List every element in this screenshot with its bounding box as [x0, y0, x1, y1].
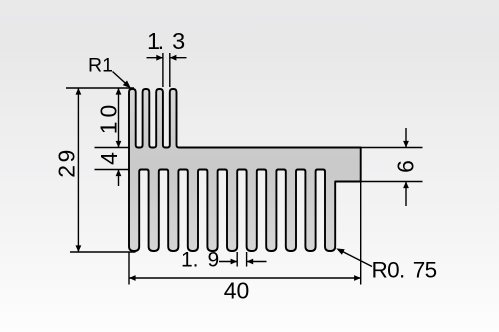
heat sink profile outline [129, 89, 361, 251]
dimension 29 extension lines [66, 88, 136, 252]
dimension 4 extension lines [95, 148, 130, 170]
dimension 6 outside arrows [405, 128, 407, 206]
leader R0.75 line [342, 251, 373, 267]
dimension 1.9 extension lines [237, 252, 246, 267]
svg-text:4: 4 [96, 152, 122, 165]
dimension 40 line [129, 277, 361, 279]
svg-text:10: 10 [96, 101, 122, 135]
dimension 40 extension lines [129, 182, 361, 285]
dimension 1.3 arrows [147, 57, 187, 59]
svg-text:29: 29 [54, 147, 80, 178]
dimension 6 extension lines [360, 148, 423, 182]
dimension 1.9 arrows [219, 261, 267, 263]
dimension 10 line [118, 88, 120, 148]
leader R1 line [113, 72, 129, 87]
dimension 1.3 extension lines [163, 53, 170, 87]
svg-text:R0.75: R0.75 [372, 258, 437, 283]
svg-text:R1: R1 [88, 55, 113, 77]
dimension 29 line [77, 88, 79, 252]
svg-text:6: 6 [393, 160, 419, 173]
svg-text:40: 40 [224, 278, 250, 304]
dimension 4 outside arrow [118, 170, 120, 187]
